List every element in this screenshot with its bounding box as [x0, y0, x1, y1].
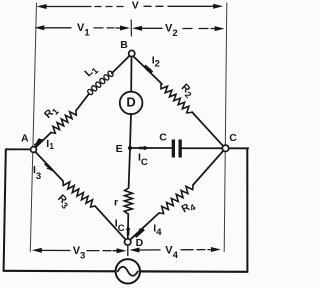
svg-text:IC: IC: [138, 151, 148, 168]
svg-text:R3: R3: [54, 192, 73, 211]
resistor R4: [159, 185, 193, 214]
current arrow IC (through r): [126, 225, 131, 230]
wire E to resistor r: [129, 149, 130, 188]
dimension tick center top (above B): [130, 20, 132, 36]
wire L1 to B: [112, 56, 130, 73]
node C: [222, 145, 228, 151]
svg-text:r: r: [114, 197, 118, 209]
svg-text:D: D: [136, 237, 144, 249]
arrow V4 right: [211, 247, 221, 252]
label R1: [42, 104, 61, 123]
current arrow I3: [46, 166, 52, 170]
wire B to detector: [130, 57, 132, 92]
dimension line V1: [42, 27, 122, 29]
wire capacitor to C: [182, 147, 223, 149]
dimension line V3: [40, 249, 118, 251]
svg-text:V1: V1: [77, 22, 90, 39]
wire A to left edge: [6, 148, 34, 150]
label R3: [54, 192, 73, 211]
arrow V2 right: [215, 26, 225, 31]
dimension tick center bottom (below D): [127, 246, 129, 256]
wire D to I4 to R4 (arm D-C lower): [130, 213, 159, 240]
resistor R1: [51, 111, 76, 134]
wire C to right edge: [226, 147, 249, 149]
current arrow IC (capacitor branch): [144, 146, 149, 150]
arrow V3 right: [117, 248, 127, 253]
current arrow I4: [138, 228, 144, 233]
wire R1 to L1: [76, 94, 89, 110]
capacitor C plate left: [172, 140, 175, 158]
node A: [31, 147, 37, 153]
wire E to capacitor: [130, 147, 172, 149]
arrow V2 left: [132, 26, 142, 31]
svg-text:V: V: [132, 0, 139, 11]
node E junction dot: [128, 146, 132, 150]
arrow V4 left: [130, 248, 140, 253]
wire left edge down: [4, 149, 6, 270]
svg-text:E: E: [116, 143, 123, 155]
svg-text:D: D: [126, 95, 135, 110]
wire R2 to C: [192, 112, 223, 146]
resistor r: [124, 188, 132, 214]
current arrow I2: [146, 68, 152, 72]
svg-text:R4: R4: [180, 199, 198, 217]
wire A to I1 to R1 (arm A-B lower): [34, 133, 52, 150]
capacitor C plate right: [179, 140, 182, 158]
dimension line V2: [140, 27, 216, 29]
arrow V1 left: [34, 25, 44, 30]
arrow V3 left: [32, 248, 42, 253]
svg-text:I2: I2: [152, 54, 160, 69]
label L1: [82, 63, 100, 81]
svg-text:V4: V4: [165, 244, 178, 261]
dimension extension line left: [30, 3, 36, 252]
label R4: [180, 199, 198, 217]
wire detector to E: [130, 114, 131, 147]
svg-text:V2: V2: [165, 22, 178, 39]
source AC generator: [116, 259, 140, 283]
dimension extension line right: [224, 3, 227, 252]
wire source to bottom right: [140, 270, 247, 273]
svg-text:R1: R1: [42, 104, 61, 123]
detector D: [120, 92, 143, 115]
wire A to I3 to R3 (arm A-D upper): [36, 152, 64, 181]
svg-text:C: C: [229, 132, 237, 144]
node B: [129, 50, 135, 56]
svg-text:I4: I4: [153, 223, 162, 238]
wire right edge up: [246, 148, 248, 271]
svg-text:I3: I3: [33, 164, 41, 182]
svg-text:C: C: [159, 132, 167, 144]
wire R4 to C: [193, 151, 224, 186]
svg-text:IC: IC: [115, 218, 125, 234]
dimension line V4: [138, 249, 212, 251]
wire bottom left to source: [4, 270, 116, 273]
inductor L1: [87, 70, 114, 95]
wire R3 to D: [95, 206, 126, 240]
svg-text:A: A: [21, 133, 29, 145]
arrow V1 right: [120, 26, 130, 31]
wire r to D with current arrow IC: [127, 214, 130, 239]
node D: [125, 239, 131, 245]
current arrow I1: [36, 138, 43, 142]
svg-text:V3: V3: [73, 245, 86, 262]
arrow V left: [37, 4, 47, 9]
resistor R2: [161, 85, 191, 113]
wire B to I2 to R2 (arm B-C upper): [133, 56, 162, 84]
label R2: [177, 82, 196, 101]
svg-text:I1: I1: [46, 138, 54, 151]
svg-text:L1: L1: [82, 63, 100, 81]
resistor R3: [63, 181, 95, 207]
dimension line V: [45, 5, 215, 7]
arrow V right: [213, 4, 223, 9]
svg-text:B: B: [120, 39, 128, 51]
